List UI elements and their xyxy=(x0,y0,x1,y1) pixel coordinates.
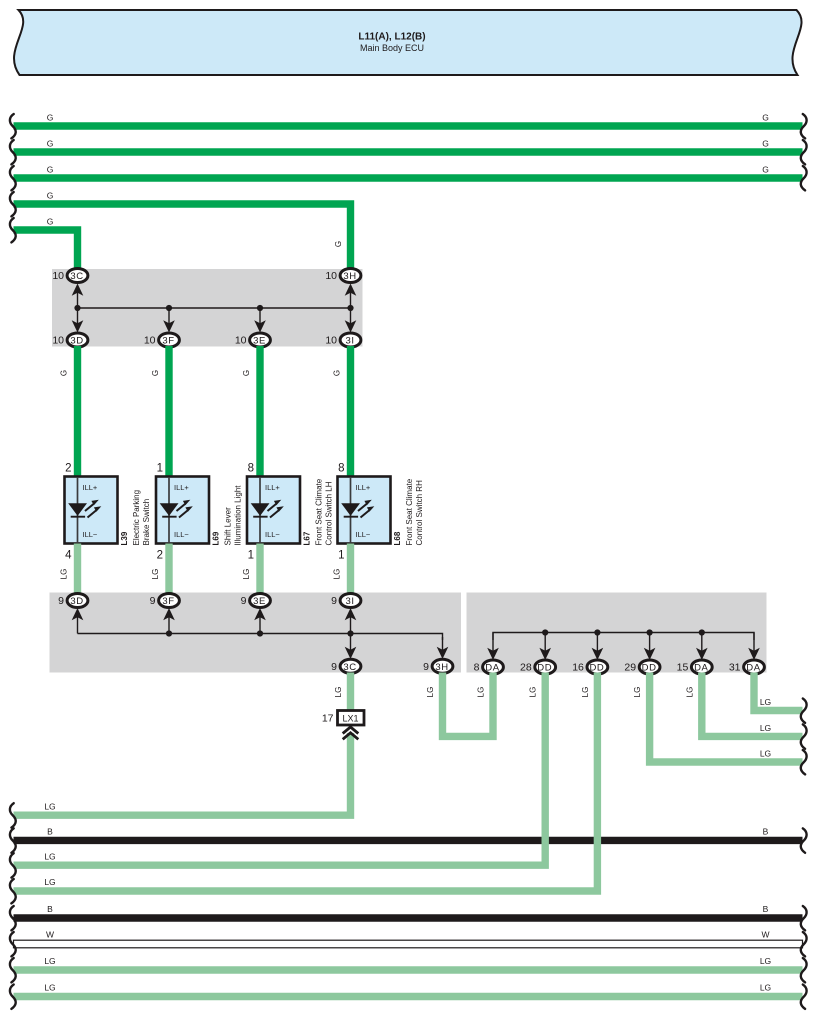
wire LG bus 8 xyxy=(14,993,803,1000)
svg-text:10: 10 xyxy=(325,270,337,282)
svg-text:L69: L69 xyxy=(212,531,221,545)
break symbols bottom-left xyxy=(10,803,16,827)
arrows down into DA/DD connectors xyxy=(492,633,494,654)
svg-text:L39: L39 xyxy=(120,531,129,545)
arrows into 3D 3F 3E 3I xyxy=(77,308,79,326)
wire W bus xyxy=(14,940,803,948)
svg-text:3I: 3I xyxy=(345,336,354,347)
svg-text:DD: DD xyxy=(537,663,552,674)
bus line inside top box xyxy=(78,307,351,309)
svg-text:9: 9 xyxy=(150,595,156,607)
wire G 3I to L68 xyxy=(347,346,354,478)
wire G bus 1 xyxy=(14,122,803,129)
svg-text:Electric Parking: Electric Parking xyxy=(132,490,141,546)
svg-text:3E: 3E xyxy=(253,596,266,607)
svg-text:10: 10 xyxy=(52,335,64,347)
break symbols top-right xyxy=(801,114,807,138)
junction connector box top (gray) xyxy=(52,269,363,347)
svg-text:ILL+: ILL+ xyxy=(174,483,189,492)
switch L68 Front Seat Climate Control Switch RH xyxy=(338,477,391,544)
svg-text:LG: LG xyxy=(44,983,55,993)
svg-text:ILL−: ILL− xyxy=(83,530,98,539)
svg-text:LG: LG xyxy=(760,983,771,993)
svg-text:ILL−: ILL− xyxy=(265,530,280,539)
svg-text:3H: 3H xyxy=(435,662,448,673)
svg-text:9: 9 xyxy=(331,595,337,607)
svg-text:Control Switch RH: Control Switch RH xyxy=(415,480,424,546)
svg-text:Control Switch LH: Control Switch LH xyxy=(325,481,334,545)
LX1 chevrons (shielded twisted pair mark) xyxy=(343,727,359,734)
svg-text:DA: DA xyxy=(694,663,708,674)
svg-text:G: G xyxy=(47,165,54,175)
svg-text:LG: LG xyxy=(60,569,69,580)
svg-text:3D: 3D xyxy=(70,596,83,607)
connector 10 3E xyxy=(250,333,271,347)
svg-text:LG: LG xyxy=(633,687,642,698)
arrow into 3H xyxy=(350,291,352,309)
svg-text:DA: DA xyxy=(746,663,760,674)
wire B bus (lower) xyxy=(14,914,803,921)
svg-text:Brake Switch: Brake Switch xyxy=(142,499,151,546)
wire LG LX1 to bus xyxy=(14,733,351,815)
svg-text:1: 1 xyxy=(157,463,163,475)
arrow into 3C xyxy=(77,291,79,309)
wire LG 28 DD to bus xyxy=(14,673,546,866)
svg-text:G: G xyxy=(47,113,54,123)
connector 17 LX1 xyxy=(338,711,365,726)
svg-text:G: G xyxy=(151,370,160,376)
svg-text:LG: LG xyxy=(760,956,771,966)
svg-text:2: 2 xyxy=(157,550,163,562)
svg-text:Illumination Light: Illumination Light xyxy=(234,485,243,546)
svg-text:3F: 3F xyxy=(162,336,174,347)
svg-text:LG: LG xyxy=(44,956,55,966)
svg-text:LG: LG xyxy=(44,801,55,811)
wire G 3E to L67 xyxy=(256,346,263,478)
wire G bus 4 to 3H xyxy=(14,204,351,272)
svg-text:B: B xyxy=(47,827,53,837)
wire LG 15 DA to right xyxy=(702,673,803,737)
wire G 3D to L39 xyxy=(74,346,81,478)
wire LG L67 to 3E xyxy=(256,544,263,595)
connector 29 DD xyxy=(639,660,660,674)
switch L39 Electric Parking Brake Switch xyxy=(65,477,118,544)
connector 10 3F xyxy=(159,333,180,347)
svg-text:2: 2 xyxy=(65,463,71,475)
svg-text:G: G xyxy=(334,241,343,247)
svg-text:ILL+: ILL+ xyxy=(356,483,371,492)
svg-text:3D: 3D xyxy=(70,336,83,347)
svg-text:1: 1 xyxy=(248,550,254,562)
svg-text:G: G xyxy=(47,191,54,201)
svg-text:LG: LG xyxy=(529,687,538,698)
wire LG L39 to 3D xyxy=(74,544,81,595)
svg-text:3C: 3C xyxy=(70,271,83,282)
wire LG 16 DD to bus xyxy=(14,673,598,892)
svg-text:L68: L68 xyxy=(393,531,402,545)
svg-text:LG: LG xyxy=(334,687,343,698)
svg-text:LG: LG xyxy=(333,569,342,580)
wire LG L68 to 3I xyxy=(347,544,354,595)
svg-text:G: G xyxy=(242,370,251,376)
svg-text:3I: 3I xyxy=(345,596,354,607)
svg-text:28: 28 xyxy=(520,662,532,674)
svg-text:ILL+: ILL+ xyxy=(265,483,280,492)
svg-text:15: 15 xyxy=(677,662,689,674)
wire G bus 3 xyxy=(14,174,803,181)
connector 9 3E xyxy=(250,594,271,608)
svg-text:Front Seat Climate: Front Seat Climate xyxy=(315,478,324,545)
svg-text:ILL+: ILL+ xyxy=(83,483,98,492)
wire G 3F to L69 xyxy=(165,346,172,478)
svg-text:LX1: LX1 xyxy=(342,714,358,724)
svg-text:16: 16 xyxy=(572,662,584,674)
connector 28 DD xyxy=(535,660,556,674)
svg-text:1: 1 xyxy=(338,550,344,562)
svg-text:W: W xyxy=(46,929,54,939)
wire LG 31 DA to right xyxy=(754,673,803,711)
connector 31 DA xyxy=(744,660,765,674)
connector 10 3D xyxy=(67,333,88,347)
svg-text:LG: LG xyxy=(760,749,771,759)
svg-text:LG: LG xyxy=(151,569,160,580)
bus line inside bottom-left box xyxy=(78,634,443,641)
svg-text:31: 31 xyxy=(729,662,741,674)
svg-text:G: G xyxy=(762,165,769,175)
svg-text:3C: 3C xyxy=(343,662,356,673)
svg-text:10: 10 xyxy=(325,335,337,347)
svg-text:3E: 3E xyxy=(253,336,266,347)
switch L69 Shift Lever Illumination Light xyxy=(156,477,209,544)
svg-text:LG: LG xyxy=(477,687,486,698)
svg-text:LG: LG xyxy=(242,569,251,580)
wire G bus 2 xyxy=(14,148,803,155)
svg-text:10: 10 xyxy=(52,270,64,282)
svg-text:G: G xyxy=(60,370,69,376)
connector 10 3I xyxy=(340,333,361,347)
svg-text:G: G xyxy=(333,370,342,376)
junction connector box bottom-left (gray) xyxy=(50,593,462,673)
svg-text:LG: LG xyxy=(760,697,771,707)
arrows up into 9-3D 3F 3E 3I xyxy=(77,615,79,634)
break symbols top-left xyxy=(10,114,16,138)
svg-text:9: 9 xyxy=(58,595,64,607)
svg-text:G: G xyxy=(762,139,769,149)
svg-text:LG: LG xyxy=(581,687,590,698)
wire LG 3H to 8 DA xyxy=(443,673,494,737)
junction connector box bottom-right (gray) xyxy=(467,593,767,673)
svg-text:9: 9 xyxy=(423,661,429,673)
connector 8 DA xyxy=(483,660,504,674)
break symbols bottom-right xyxy=(801,699,807,723)
svg-text:DD: DD xyxy=(642,663,657,674)
connector 10 3C xyxy=(67,269,88,283)
svg-text:29: 29 xyxy=(624,662,636,674)
svg-text:B: B xyxy=(47,904,53,914)
connector 15 DA xyxy=(691,660,712,674)
svg-text:LG: LG xyxy=(44,877,55,887)
svg-text:L11(A), L12(B): L11(A), L12(B) xyxy=(358,32,425,43)
svg-text:LG: LG xyxy=(426,687,435,698)
connector 9 3F xyxy=(159,594,180,608)
wire LG L69 to 3F xyxy=(165,544,172,595)
connector 10 3H xyxy=(340,269,361,283)
svg-text:3H: 3H xyxy=(343,271,356,282)
svg-text:9: 9 xyxy=(241,595,247,607)
svg-text:17: 17 xyxy=(322,713,334,725)
wire B bus (upper) xyxy=(14,837,803,844)
svg-text:LG: LG xyxy=(44,851,55,861)
connector 9 3D xyxy=(67,594,88,608)
svg-text:8: 8 xyxy=(474,662,480,674)
arrow down into 9-3H xyxy=(442,637,444,652)
svg-text:9: 9 xyxy=(331,661,337,673)
svg-text:B: B xyxy=(763,827,769,837)
svg-text:G: G xyxy=(47,217,54,227)
svg-text:G: G xyxy=(762,113,769,123)
svg-text:Front Seat Climate: Front Seat Climate xyxy=(405,478,414,545)
svg-text:L67: L67 xyxy=(303,531,312,545)
wire LG 3C to LX1 xyxy=(347,673,354,712)
connector 9 3C xyxy=(340,659,361,673)
svg-text:10: 10 xyxy=(144,335,156,347)
svg-text:ILL−: ILL− xyxy=(174,530,189,539)
svg-text:3F: 3F xyxy=(162,596,174,607)
connector 9 3I xyxy=(340,594,361,608)
svg-text:8: 8 xyxy=(338,463,344,475)
connector 16 DD xyxy=(587,660,608,674)
svg-text:4: 4 xyxy=(65,550,72,562)
svg-text:DD: DD xyxy=(589,663,604,674)
ECU block L11(A)/L12(B) Main Body ECU xyxy=(14,10,802,75)
svg-text:B: B xyxy=(763,904,769,914)
arrow down into 9-3C xyxy=(350,634,352,653)
wire G bus 5 to 3C xyxy=(14,230,78,272)
svg-text:Main Body ECU: Main Body ECU xyxy=(360,43,424,53)
svg-text:W: W xyxy=(761,929,769,939)
connector 9 3H xyxy=(432,659,453,673)
svg-text:DA: DA xyxy=(485,663,499,674)
svg-text:10: 10 xyxy=(235,335,247,347)
svg-text:Shift Lever: Shift Lever xyxy=(224,507,233,546)
svg-text:ILL−: ILL− xyxy=(356,530,371,539)
wire LG bus 7 xyxy=(14,966,803,973)
svg-text:LG: LG xyxy=(760,723,771,733)
wire LG 29 DD to right xyxy=(650,673,803,763)
bus line inside bottom-right box xyxy=(493,633,754,641)
svg-text:LG: LG xyxy=(685,687,694,698)
svg-text:G: G xyxy=(47,139,54,149)
switch L67 Front Seat Climate Control Switch LH xyxy=(247,477,300,544)
svg-text:8: 8 xyxy=(248,463,254,475)
